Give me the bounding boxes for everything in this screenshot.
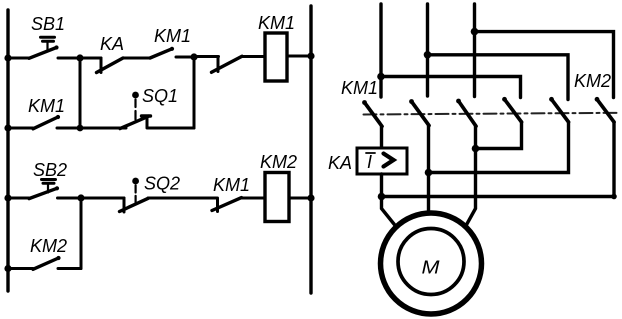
svg-text:KM2: KM2 bbox=[30, 236, 67, 256]
KM1 pole 2 blade bbox=[409, 99, 429, 125]
wire to coil KM1 bbox=[242, 55, 265, 58]
motor M outer circle bbox=[381, 213, 482, 314]
svg-text:M: M bbox=[422, 258, 440, 278]
KM2 pole 5 blade bbox=[549, 97, 568, 122]
limit switch SQ2 bbox=[120, 178, 149, 212]
coil KM2 bbox=[265, 173, 289, 222]
junction rail-rung2 bbox=[4, 124, 11, 131]
svg-text:KM1: KM1 bbox=[28, 96, 65, 116]
junction L1 tap bbox=[377, 73, 385, 81]
svg-text:KA: KA bbox=[100, 34, 124, 54]
push button SB2 bbox=[8, 180, 59, 199]
left rail bbox=[6, 10, 9, 291]
wire SQ2 to KM1 NC bbox=[148, 197, 217, 200]
svg-text:I: I bbox=[367, 152, 372, 172]
contactor contact KM1 (NO) bbox=[150, 47, 194, 58]
wire SB2 to rung3 node bbox=[58, 197, 82, 200]
node A junction bbox=[76, 54, 83, 61]
phase line L1 bbox=[379, 4, 382, 97]
self-hold contact KM1 (NO) bbox=[8, 115, 80, 129]
junction rung2 node bbox=[77, 125, 84, 132]
right rail bbox=[309, 6, 312, 293]
corner junction pole6 bbox=[611, 194, 617, 200]
phase line L3 bbox=[473, 4, 476, 97]
motor M inner circle bbox=[398, 229, 464, 295]
wire rung3 node down to rung4 corner bbox=[80, 198, 83, 269]
junction L2 tap bbox=[424, 51, 432, 59]
push button SB1 bbox=[8, 37, 59, 58]
junction motor lead U bbox=[378, 193, 386, 201]
junction motor lead V bbox=[425, 169, 433, 177]
svg-text:SB2: SB2 bbox=[33, 160, 67, 180]
svg-text:SQ2: SQ2 bbox=[144, 174, 180, 194]
wire KM2 pole6 to lead U bbox=[382, 122, 615, 197]
wire L1 to KM2 pole 4 bbox=[381, 77, 521, 98]
junction rung3 node bbox=[77, 194, 84, 201]
svg-text:KA: KA bbox=[328, 153, 352, 173]
wire node B down to rung 2 bbox=[193, 57, 196, 128]
mechanical linkage line bbox=[364, 113, 621, 115]
self-hold contact KM2 (NO) bbox=[8, 256, 81, 269]
junction rail-rung1 bbox=[4, 54, 11, 61]
wire coil KM1 to right rail bbox=[287, 55, 311, 58]
wire KA to motor lead U bbox=[382, 174, 397, 227]
svg-text:KM1: KM1 bbox=[154, 26, 191, 46]
svg-text:KM1: KM1 bbox=[213, 175, 250, 195]
svg-text:KM1: KM1 bbox=[341, 78, 378, 98]
wire to SQ1 bbox=[80, 127, 126, 130]
wire to SQ2 bbox=[81, 197, 124, 200]
node B junction bbox=[190, 53, 197, 60]
junction motor lead W bbox=[472, 145, 480, 153]
interlock contact KM1 (NC) bbox=[212, 198, 242, 212]
junction rail-rung3 bbox=[4, 194, 11, 201]
overcurrent relay KA bbox=[357, 148, 407, 174]
coil KM1 bbox=[265, 33, 287, 81]
phase line L2 bbox=[426, 4, 429, 96]
wire coil KM2 to right rail bbox=[289, 197, 311, 200]
wire KA to KM1 contact bbox=[123, 57, 150, 60]
junction right rail rung1 bbox=[307, 52, 314, 59]
relay contact KA (NC) bbox=[80, 58, 123, 73]
wire KM1 pole2 to motor lead V bbox=[427, 126, 430, 214]
junction L3 tap bbox=[471, 28, 479, 36]
junction right rail rung3 bbox=[307, 194, 314, 201]
KM1 pole 1 blade bbox=[362, 100, 382, 126]
wire L2 to KM2 pole 5 bbox=[428, 55, 569, 100]
wire SB1 to node A bbox=[58, 57, 80, 60]
wire KM1 pole3 to motor lead W bbox=[466, 126, 476, 227]
svg-text:SB1: SB1 bbox=[31, 14, 65, 34]
wire to coil KM2 bbox=[242, 197, 266, 200]
wire SQ1 to riser bbox=[147, 127, 194, 130]
KM2 pole 6 blade bbox=[595, 97, 614, 122]
wire KM2 pole4 to lead W bbox=[476, 122, 522, 149]
junction rail-rung4 bbox=[4, 265, 11, 272]
KM2 pole 4 blade bbox=[502, 97, 521, 122]
wire KM2 pole5 to lead V bbox=[429, 122, 569, 173]
limit switch SQ1 bbox=[120, 92, 151, 129]
svg-text:KM1: KM1 bbox=[258, 13, 295, 33]
svg-text:SQ1: SQ1 bbox=[142, 86, 178, 106]
interlock contact KM2 (NC) bbox=[194, 56, 242, 72]
svg-text:KM2: KM2 bbox=[260, 152, 297, 172]
wire L3 to KM2 pole 6 bbox=[475, 32, 614, 98]
wire KM1 pole1 to KA relay bbox=[380, 126, 383, 148]
svg-text:KM2: KM2 bbox=[574, 71, 611, 91]
wire node A down to rung 2 bbox=[79, 58, 82, 128]
KM1 pole 3 blade bbox=[456, 99, 476, 127]
